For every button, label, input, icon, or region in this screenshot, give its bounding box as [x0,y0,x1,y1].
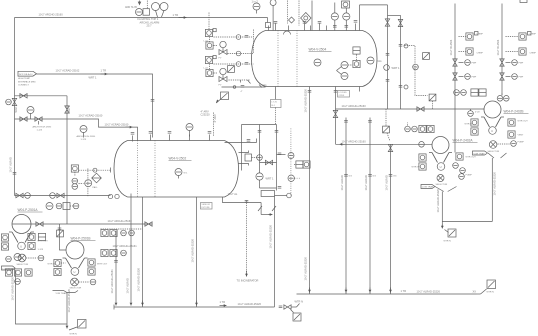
wire: top header line [15,17,268,19]
midleft dashed cluster right [79,168,111,197]
CV tag texts [204,41,222,87]
valve on second vertical [65,105,71,113]
label W04-P-2501A [18,208,43,212]
svg-text:10-2" ALRAD-25220: 10-2" ALRAD-25220 [493,172,497,196]
valves on right risers [385,19,402,81]
svg-text:10-2" ALRAD-25220: 10-2" ALRAD-25220 [304,257,308,281]
svg-text:OPEN: OPEN [339,95,345,97]
wire: left column pipe [11,270,68,324]
svg-text:10-2" ARCHG-25160: 10-2" ARCHG-25160 [108,219,133,223]
wire: vessel outlet to pump headers [334,87,338,145]
svg-text:PUMP: PUMP [518,142,525,144]
eductor circle 1 [256,173,277,188]
instrument cluster left of pump A suction [405,123,434,133]
vessel bottom nozzle LT [271,87,282,108]
svg-text:ADD 74-35: ADD 74-35 [125,6,137,9]
pump B lower bubbles [488,141,525,153]
svg-text:10-2" ALRAD-25226: 10-2" ALRAD-25226 [191,239,195,263]
pump A1 lower bubbles [17,254,44,266]
drain header box [261,191,291,198]
svg-text:LT 25: LT 25 [272,102,278,104]
svg-text:CHMP: CHMP [477,34,484,36]
wire: drop at 260.5 [258,203,273,215]
tag on drop2 [201,203,213,210]
vessel W04-V-2502 [114,141,239,198]
upper manifold interlock [487,280,496,294]
pump B left boxes [465,119,479,135]
interlock near headers [383,109,390,141]
manifold end valves [279,300,303,310]
valve on outlet drop [333,110,337,117]
bubble on header A [419,142,425,148]
svg-text:LOW TRAP: LOW TRAP [422,186,434,189]
svg-text:WTR IN: WTR IN [465,124,473,126]
svg-text:WRT 1: WRT 1 [266,176,275,180]
svg-text:W02 1: W02 1 [67,105,71,113]
upper manifold end [473,289,487,294]
valve on left vertical [6,98,17,105]
flanges on top nozzles [274,21,358,24]
bottom left box cluster 1 [101,229,134,236]
interlock drain box [444,229,457,243]
pump A1 left boxes [1,234,8,250]
svg-text:WRT 1: WRT 1 [89,76,98,80]
svg-text:W04-P-2402A: W04-P-2402A [453,139,474,143]
labels on upper manifold [401,289,441,294]
svg-text:PMP: PMP [472,77,477,79]
svg-text:VOR TRAP: VOR TRAP [474,152,486,155]
arrows into upper manifold [310,288,391,293]
svg-text:LOCKED: LOCKED [339,92,348,94]
dashed line to pump interlock [405,46,428,96]
svg-text:WTR N: WTR N [444,241,452,243]
svg-text:10-2" ALRAD-25220: 10-2" ALRAD-25220 [436,189,440,213]
svg-text:10-2" ACRAD-25160: 10-2" ACRAD-25160 [105,123,129,127]
svg-text:NOT-DB-A-10: NOT-DB-A-10 [19,73,33,76]
svg-text:VENT: VENT [518,135,524,137]
level bridle vessel2 [239,151,263,166]
wire: vessel2 right head drain [223,197,262,203]
svg-text:1-123: 1-123 [37,130,43,132]
vessel manway bump [284,31,291,35]
wire: drain header join [442,221,492,223]
manifold verticals: drop 390 [385,144,397,294]
svg-text:10-2" ALRAD: 10-2" ALRAD [126,278,130,293]
pump A1 U bubble [18,242,26,250]
svg-text:CHMP: CHMP [530,34,537,36]
pump B1 lower bubbles [70,278,96,289]
flanges vessel2 nozzles [131,132,212,135]
svg-text:GG: GG [393,176,397,178]
svg-text:GG: GG [263,83,267,87]
dashed incinerator line [237,201,259,283]
bubbles on upper dashed links [236,35,248,56]
svg-text:10-2" ACRAD-25160: 10-2" ACRAD-25160 [79,114,103,118]
control valve station upper: boxes [205,29,216,50]
instrument bubble group top-left [136,1,150,16]
svg-text:W04-V-2502: W04-V-2502 [169,157,187,161]
pump W04-P-2402A [429,137,452,163]
svg-text:L-01: L-01 [204,41,209,43]
svg-text:4": 4" [241,91,243,93]
svg-text:10-2" ALRAD: 10-2" ALRAD [385,175,389,190]
svg-text:25.7: 25.7 [147,24,153,28]
svg-text:SELECTOR: SELECTOR [70,288,82,290]
bubble on riser 387 [384,65,400,71]
svg-text:WTR IN: WTR IN [412,167,420,169]
vessel top nozzles [269,24,356,31]
riser2 boxes [506,32,532,56]
instrument bubble above vessel [289,1,313,31]
tag box on outlet [338,91,350,98]
svg-text:PMP: PMP [519,63,524,65]
pump suction header A [336,143,433,145]
pump B U bubble [489,127,497,135]
svg-text:10-2" ALRAD-25220: 10-2" ALRAD-25220 [304,89,308,113]
pump W04-P-2501B [63,241,88,268]
small tag near ARV [216,92,228,103]
instrument bubble TI on left branch [27,107,34,120]
dashed stub above CV boxes [208,13,210,30]
svg-text:10-2" ACRAD-25162: 10-2" ACRAD-25162 [56,69,80,73]
control valve station upper: dashed links [214,30,254,54]
svg-text:CHMP: CHMP [530,53,537,55]
svg-text:SELECTOR: SELECTOR [436,184,448,186]
svg-text:WTR OUT: WTR OUT [38,241,49,243]
bubble on header B [468,109,481,116]
pump B drip tray [473,151,507,158]
svg-text:SELECTOR: SELECTOR [17,264,29,266]
wire: vessel2 bottom drop 2 [191,197,197,307]
svg-text:10-2" ALRAD: 10-2" ALRAD [9,157,13,172]
svg-text:WTR OUT: WTR OUT [97,264,108,266]
svg-text:ARCH.TECH.DWG: ARCH.TECH.DWG [33,126,52,129]
control valve station lower: dashed links [214,64,254,80]
svg-text:W04-P-2501A: W04-P-2501A [18,208,39,212]
pump B1 drip tray [53,291,79,296]
wire: vessel2 bottom drop 1 [137,197,143,307]
wire: drain drop x115 [110,231,118,306]
label 1 TR on lower manifold [220,300,227,306]
valve on bottom header [145,222,152,226]
top right corner box [520,0,527,3]
circles above pump B1 [46,203,79,210]
wire: vessel2 left drain [130,194,132,300]
svg-text:CHMP: CHMP [477,53,484,55]
pump A drip tray [421,185,457,192]
pump A left boxes [412,154,427,170]
wire: line from vessel2 right top going right [225,142,257,144]
svg-text:1-123: 1-123 [81,139,87,141]
svg-text:FUTURE: FUTURE [202,207,211,209]
pump A right boxes [453,153,477,173]
svg-text:10-2" ARCHG-25160: 10-2" ARCHG-25160 [342,139,367,143]
svg-text:W04-P-2402B: W04-P-2402B [504,110,524,114]
svg-text:4" ARV: 4" ARV [213,114,217,122]
svg-text:TO INCINERATOR: TO INCINERATOR [237,279,259,283]
pump A1 right boxes [28,233,48,251]
svg-text:10-2" ALRAD: 10-2" ALRAD [340,175,344,190]
arrow into manifold from drop2 [196,301,198,306]
valve on branch [20,94,27,98]
svg-text:VOR TRAP: VOR TRAP [56,292,68,295]
label W04-V-2504 [309,48,332,52]
arrow into manifold from drop1 [142,301,144,306]
svg-text:XX: XX [473,290,477,294]
vessel2 top nozzles [133,135,210,142]
tag boxes right in vessel [353,47,360,68]
stubs on subunit vertical [277,153,286,188]
svg-text:FLOATING TOP 1: FLOATING TOP 1 [138,17,159,21]
label W04-V-2502 [169,157,192,161]
wire: center drop line to manifold [308,87,312,295]
wire: vessel2 suction line to pumps [15,195,111,197]
instrument bubble at 271 top [270,0,276,31]
wire: upper-left branch horizontal [15,95,68,97]
svg-text:PMP: PMP [472,63,477,65]
tick nozzle right bottom [359,87,361,92]
instrument bubble above vessel nozzle [186,124,193,137]
instrument bubble above mid vessel feed [77,126,96,141]
vessel W04-V-2504 [252,31,378,87]
right riser 1 [449,4,455,153]
svg-text:1 TR: 1 TR [173,13,179,17]
pump W04-P-2501A [9,215,34,243]
top piping network [360,5,401,109]
midleft instrument cluster [71,165,98,189]
svg-text:1 TR: 1 TR [220,300,226,304]
node: arrow on crossfeed [126,126,133,128]
right riser 2 [496,4,502,96]
svg-text:GG: GG [349,176,353,178]
svg-text:GG: GG [378,59,382,63]
label W04-P-2402B [504,110,529,114]
svg-text:10-2" ARCHG-25160: 10-2" ARCHG-25160 [39,13,64,17]
svg-text:GG: GG [373,176,377,178]
label: floating top note [138,17,160,28]
svg-text:WTR OUT: WTR OUT [518,121,529,123]
level bubbles in vessel [337,62,353,80]
svg-text:C25220: C25220 [201,113,211,117]
svg-text:WTR OUT: WTR OUT [466,157,477,159]
wire: crossfeed line to middle vessel [15,119,138,141]
svg-text:10-2" ALRAD: 10-2" ALRAD [364,175,368,190]
svg-text:WTR N: WTR N [70,334,78,336]
dashed ARV riser [201,110,218,137]
flange bubbles on riser 402 [399,44,408,89]
riser1 boxes [459,32,479,56]
pump B right boxes [508,119,528,138]
valve bubble pair 1 on suction [16,193,30,199]
eductor circle 2 [288,129,301,196]
note flag DB-A callout [18,71,37,86]
svg-text:10-2" ALRAD-25226: 10-2" ALRAD-25226 [238,302,262,306]
svg-text:10-2" ARCHG-25160: 10-2" ARCHG-25160 [342,104,367,108]
bottom left dashed tie [101,219,143,229]
svg-text:CONNECT: CONNECT [18,85,29,87]
wire: left main vertical [14,18,16,196]
wire: second left vertical [66,96,68,224]
svg-text:PMP: PMP [519,77,524,79]
valve bubble pair 2 on suction [50,193,64,199]
wire: pump B drain [491,158,493,222]
flange on left vertical [13,173,17,175]
manifold verticals: drop 345 [340,118,352,295]
svg-text:INTERFACE MED: INTERFACE MED [18,80,36,83]
psv cluster above vessel [331,1,350,31]
marks on that line [247,139,257,143]
interlock pump suction [429,94,436,109]
svg-text:1 in 2: 1 in 2 [252,0,259,3]
wire: upper manifold right [297,293,477,295]
manifold verticals: drop 369 [364,118,376,295]
svg-text:U: U [74,270,76,274]
svg-text:10-2" W-2504: 10-2" W-2504 [449,39,453,55]
svg-text:1-123: 1-123 [38,249,44,251]
flange valve near pump A discharge [36,222,63,237]
wire: pump B1 drain [67,289,71,324]
instrument bubble pair top [152,3,169,18]
dashed link LT box to subunit [275,108,277,125]
pump A lower bubbles [436,174,473,186]
svg-text:PUMP: PUMP [466,175,473,177]
arrow on header A [340,143,345,145]
svg-text:SELECTOR: SELECTOR [488,151,500,153]
wire: drop at 274.5 [269,197,277,308]
instrument bubble in vessel [314,59,321,66]
control valve station upper: valve [214,41,228,54]
svg-text:LOW TEMP: LOW TEMP [3,268,15,270]
manifold interlock box [291,310,302,322]
condensate sub-unit frame [242,125,279,191]
node: tick at end of header [267,18,269,23]
dashed instrument risers above vessel [288,1,300,26]
bubble in vessel2 [175,169,188,179]
svg-text:1 TR: 1 TR [401,289,407,293]
control valve station lower: valve [214,66,235,82]
pump B1 left boxes [48,259,66,275]
svg-text:HIGH TEMP: HIGH TEMP [18,78,31,80]
instrument bubble near vessel top-left [252,0,261,13]
svg-text:10-2" ALRAD-25226: 10-2" ALRAD-25226 [417,290,441,294]
wire: pump B1 suction [60,224,67,250]
drain end arrow [442,225,448,233]
svg-text:W02 1: W02 1 [14,104,18,112]
svg-text:1 TR: 1 TR [101,69,107,73]
right head instruments [367,57,382,64]
instrument cluster right of eductors [294,161,310,168]
svg-text:W04-V-2504: W04-V-2504 [309,48,327,52]
svg-text:WTR N: WTR N [295,300,304,304]
wire: pump suction header bottom-left [13,223,153,225]
interlock near risers [423,53,430,60]
bubble on dashed [413,64,419,70]
wire: pump A drain [441,192,443,228]
svg-text:10-2" ALRAD-25226: 10-2" ALRAD-25226 [137,268,141,292]
riser1 bottom cluster [454,89,486,96]
svg-text:U: U [491,129,493,133]
control valve station lower: boxes [205,56,216,77]
svg-text:10-2" ARCHG-25161: 10-2" ARCHG-25161 [110,269,114,294]
pump B1 U bubble [71,268,79,276]
svg-text:WTR N: WTR N [487,292,495,294]
svg-text:ARCH.TECH.DWG: ARCH.TECH.DWG [77,135,96,138]
svg-text:10-2" ALRAD-25226: 10-2" ALRAD-25226 [269,225,273,249]
label W04-P-2402A [453,139,478,143]
svg-text:10-2" W-2504: 10-2" W-2504 [496,39,500,55]
svg-text:10-2" ALRAD-25220: 10-2" ALRAD-25220 [67,289,71,313]
svg-text:WTR IN: WTR IN [48,264,56,266]
drain arrow and interlock [67,320,86,336]
svg-text:PALL: PALL [93,186,99,189]
node: arrow on note line [101,73,108,75]
wire: stub left of vessel bottom [222,83,267,93]
svg-text:WRT 1: WRT 1 [392,66,401,70]
vessel2 internal weirs [138,141,156,198]
bubbles on lower dashed links [236,62,250,84]
low temp flag [2,266,16,270]
riser tag texts [472,34,537,79]
svg-text:U: U [440,165,442,169]
valve pair on crossfeed [20,117,52,132]
wire: note line to vessel feed [37,74,153,138]
riser1 valves [453,59,471,80]
svg-text:U: U [20,245,22,249]
vessel internal weir lines [278,31,297,87]
riser2 valves [500,59,518,80]
pump W04-P-2402B [481,101,504,127]
node: arrow on top header [179,17,187,19]
drain bubbles under left head [108,194,119,198]
label W04-P-2501B [71,237,96,241]
svg-text:W04-P-2501B: W04-P-2501B [71,237,91,241]
wire: lower manifold [114,306,275,308]
svg-text:4"x6": 4"x6" [475,112,480,114]
bottom left box cluster 2 [101,249,126,256]
valve on header B [417,107,424,111]
left column cluster bottom [5,254,32,285]
pump B1 right boxes [88,259,108,275]
pump A U bubble [437,163,445,171]
svg-text:10-2" AL: 10-2" AL [228,192,238,196]
pump suction header B [336,108,485,110]
svg-text:10-2" ALRAD-25220: 10-2" ALRAD-25220 [11,277,15,301]
circles below riser2 [497,94,509,102]
